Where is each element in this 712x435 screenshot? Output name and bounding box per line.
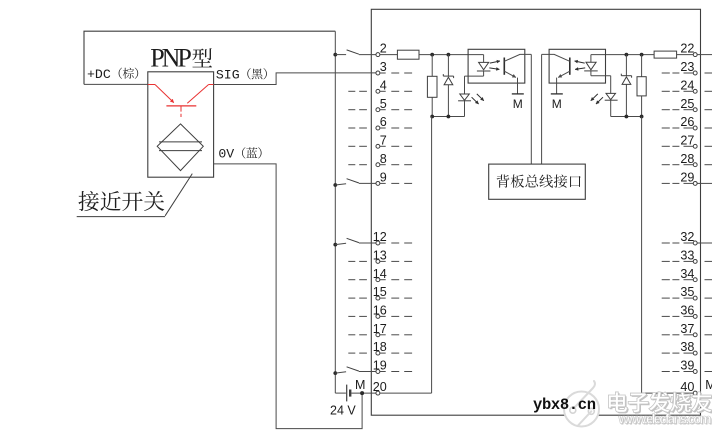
- svg-text:35: 35: [680, 285, 694, 299]
- svg-text:22: 22: [680, 42, 694, 56]
- svg-text:PNP: PNP: [150, 44, 192, 73]
- svg-text:+DC: +DC: [87, 67, 111, 82]
- svg-text:M: M: [705, 378, 712, 392]
- svg-text:28: 28: [680, 152, 694, 166]
- svg-text:M: M: [552, 97, 562, 111]
- svg-text:5: 5: [380, 97, 387, 111]
- svg-text:www.elecfans.com: www.elecfans.com: [618, 412, 712, 427]
- svg-text:24 V: 24 V: [330, 403, 356, 417]
- svg-text:27: 27: [680, 133, 694, 147]
- svg-text:36: 36: [680, 304, 694, 318]
- svg-text:M: M: [513, 97, 523, 111]
- svg-text:M: M: [355, 378, 365, 392]
- svg-text:25: 25: [680, 97, 694, 111]
- svg-text:23: 23: [680, 60, 694, 74]
- svg-text:SIG: SIG: [216, 67, 240, 82]
- svg-text:ybx8.cn: ybx8.cn: [533, 396, 596, 414]
- svg-text:4: 4: [380, 78, 387, 92]
- svg-text:0V: 0V: [218, 146, 234, 161]
- svg-text:29: 29: [680, 171, 694, 185]
- svg-text:3: 3: [380, 60, 387, 74]
- svg-text:32: 32: [680, 230, 694, 244]
- svg-text:6: 6: [380, 115, 387, 129]
- svg-text:33: 33: [680, 249, 694, 263]
- svg-text:8: 8: [380, 152, 387, 166]
- svg-text:37: 37: [680, 322, 694, 336]
- svg-text:2: 2: [380, 42, 387, 56]
- svg-text:9: 9: [380, 171, 387, 185]
- svg-text:39: 39: [680, 359, 694, 373]
- svg-text:38: 38: [680, 340, 694, 354]
- svg-text:26: 26: [680, 115, 694, 129]
- svg-text:7: 7: [380, 133, 387, 147]
- svg-text:24: 24: [680, 78, 694, 92]
- svg-text:34: 34: [680, 267, 694, 281]
